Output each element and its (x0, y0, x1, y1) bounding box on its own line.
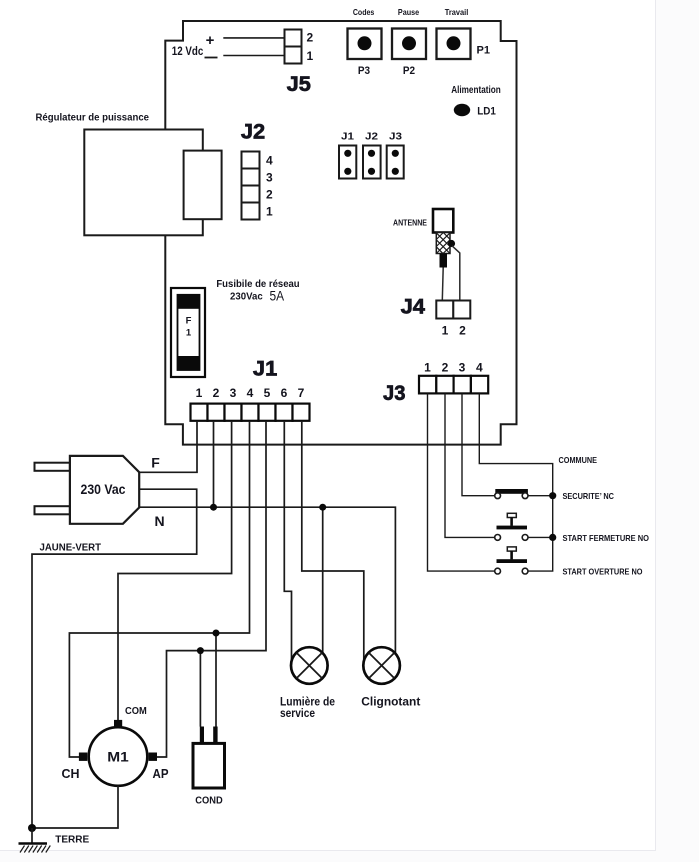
svg-text:1: 1 (186, 327, 192, 338)
connector J5 (285, 30, 302, 64)
svg-text:J1: J1 (341, 131, 354, 143)
svg-text:230 Vac: 230 Vac (81, 482, 126, 497)
button P2 (392, 29, 426, 60)
svg-text:J1: J1 (253, 357, 278, 380)
wire F: plug to J1 pin 1 (139, 421, 197, 472)
switch SECURITE NC (495, 489, 553, 499)
svg-text:J5: J5 (287, 73, 312, 96)
svg-text:Fusibile de réseau: Fusibile de réseau (216, 278, 299, 290)
switch START FERMETURE NO (495, 513, 553, 540)
svg-text:2: 2 (307, 31, 314, 45)
svg-text:6: 6 (281, 386, 288, 400)
svg-text:LD1: LD1 (477, 106, 496, 118)
svg-text:SECURITE’ NC: SECURITE’ NC (563, 491, 615, 501)
junction N / pin2 (210, 504, 217, 511)
wire J1 pin 3 to M1 COM (118, 421, 232, 720)
wire J3 pin 4 COMMUNE (479, 394, 552, 572)
connector J3 (419, 376, 488, 394)
svg-text:Régulateur de puissance: Régulateur de puissance (36, 113, 150, 124)
wire COND right tap (215, 633, 217, 727)
junction COMMUNE / FERMETURE (549, 534, 556, 541)
regulator block Régulateur de puissance (84, 130, 221, 236)
svg-text:Alimentation: Alimentation (451, 85, 501, 96)
wire M1 to ground (32, 786, 118, 828)
capacitor COND (193, 727, 225, 789)
svg-text:ANTENNE: ANTENNE (393, 219, 427, 228)
wire earth JAUNE-VERT: plug to ground (32, 489, 197, 828)
svg-text:CH: CH (62, 766, 80, 781)
svg-text:4: 4 (476, 360, 483, 374)
svg-text:2: 2 (442, 360, 449, 374)
label minus (205, 57, 218, 59)
wire J5 pin1 minus (223, 55, 284, 57)
svg-text:Clignotant: Clignotant (361, 695, 420, 709)
button P1 (437, 29, 471, 60)
svg-text:2: 2 (266, 187, 273, 201)
svg-text:5A: 5A (270, 287, 285, 303)
motor M1 (79, 720, 157, 786)
svg-text:2: 2 (459, 324, 466, 338)
connector J1 (191, 404, 310, 421)
junction N / lamp1 (319, 504, 326, 511)
jumper J1 (339, 146, 356, 179)
svg-text:1: 1 (266, 204, 273, 218)
svg-text:230Vac: 230Vac (230, 291, 263, 303)
svg-text:service: service (280, 706, 315, 720)
wire J3 pin 1 to START OVERTURE (428, 394, 495, 572)
wire J1 pin 2 down (213, 421, 215, 507)
svg-text:1: 1 (442, 324, 449, 338)
wire J3 pin 2 to START FERMETURE (445, 394, 495, 538)
svg-text:P1: P1 (477, 45, 491, 57)
junction AP wire / COND (197, 647, 204, 654)
svg-text:START OVERTURE NO: START OVERTURE NO (563, 567, 643, 577)
wire J1 pin 4 to M1 CH (69, 421, 249, 757)
fuse F1 (171, 288, 205, 377)
ground TERRE (19, 828, 51, 853)
svg-text:Codes: Codes (353, 7, 375, 17)
lamp Clignotant (363, 647, 400, 684)
switch START OVERTURE NO (495, 547, 528, 574)
svg-text:F: F (186, 315, 192, 326)
svg-text:1: 1 (307, 49, 314, 63)
svg-text:7: 7 (298, 386, 305, 400)
svg-text:JAUNE-VERT: JAUNE-VERT (40, 542, 102, 554)
svg-text:4: 4 (266, 153, 273, 167)
svg-text:5: 5 (264, 386, 271, 400)
svg-text:4: 4 (247, 386, 254, 400)
junction ground (28, 824, 36, 832)
LED LD1 (454, 104, 470, 116)
board outline (165, 21, 516, 445)
svg-text:P3: P3 (358, 65, 370, 77)
svg-text:2: 2 (213, 386, 220, 400)
svg-text:J4: J4 (401, 296, 426, 319)
pin labels 1-4 (J3) (424, 360, 483, 374)
svg-text:F: F (151, 455, 160, 471)
junction CH wire / COND (213, 630, 220, 637)
antenna (433, 209, 455, 268)
svg-text:COMMUNE: COMMUNE (559, 455, 598, 465)
wire COND left tap (199, 651, 201, 727)
wire J5 pin2 plus (223, 37, 284, 39)
wire N to lamp 1 (322, 507, 324, 654)
wire N: plug to J1 pin 2, lamps (139, 507, 395, 654)
wire antenna stub to J4 pin 1 (441, 268, 444, 301)
wire antenna braid to J4 pin 2 (452, 246, 460, 301)
svg-text:J3: J3 (389, 131, 402, 143)
junction COMMUNE / SECURITE (549, 492, 556, 499)
svg-text:AP: AP (153, 766, 169, 781)
svg-text:3: 3 (459, 360, 466, 374)
svg-text:Travail: Travail (445, 7, 469, 17)
svg-text:3: 3 (230, 386, 237, 400)
plug 230 Vac (35, 456, 140, 524)
wire J3 pin 3 to SECURITE (462, 394, 495, 496)
wire J1 pin 6 to lamp 1 (284, 421, 291, 663)
connector J4 (436, 301, 470, 319)
svg-text:N: N (154, 513, 164, 529)
pin labels 1-7 (J1) (196, 386, 305, 400)
svg-text:M1: M1 (107, 749, 129, 764)
lamp Lumière de service (291, 647, 328, 684)
wire J1 pin 5 to M1 AP (157, 421, 266, 757)
svg-text:3: 3 (266, 170, 273, 184)
button P3 (348, 29, 382, 60)
svg-text:START FERMETURE NO: START FERMETURE NO (563, 533, 650, 543)
svg-text:J3: J3 (383, 382, 405, 405)
svg-text:Pause: Pause (398, 7, 419, 17)
svg-text:J2: J2 (241, 121, 265, 144)
svg-text:J2: J2 (365, 131, 378, 143)
svg-text:1: 1 (196, 386, 203, 400)
svg-text:12 Vdc: 12 Vdc (172, 44, 204, 58)
svg-text:TERRE: TERRE (55, 833, 89, 845)
jumper J2 (363, 146, 381, 179)
connector J2 (242, 152, 260, 220)
svg-text:COND: COND (195, 795, 223, 807)
svg-text:+: + (206, 32, 215, 49)
svg-text:COM: COM (125, 705, 147, 717)
wire J1 pin 7 to lamp 2 (302, 421, 364, 663)
jumper J3 (387, 146, 404, 179)
svg-text:P2: P2 (403, 65, 415, 77)
svg-text:1: 1 (424, 360, 431, 374)
